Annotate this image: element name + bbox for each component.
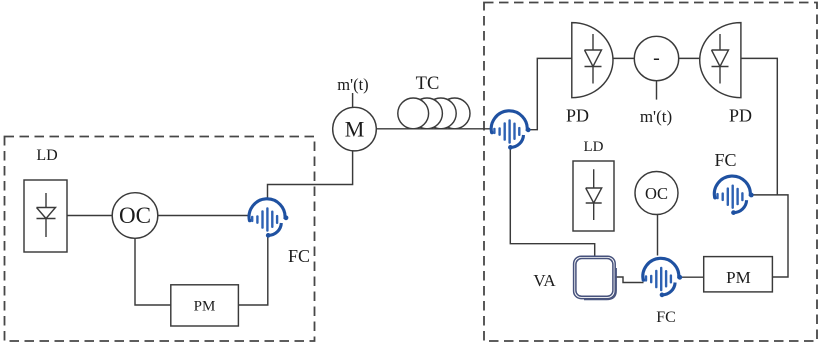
svg-text:FC: FC [288, 246, 310, 266]
svg-text:LD: LD [36, 147, 57, 164]
svg-text:PM: PM [726, 268, 751, 287]
svg-text:-: - [653, 47, 660, 69]
svg-text:OC: OC [119, 203, 151, 228]
svg-text:FC: FC [656, 309, 676, 326]
svg-text:PM: PM [194, 299, 216, 315]
svg-text:TC: TC [416, 74, 440, 94]
svg-text:VA: VA [533, 271, 556, 290]
svg-text:OC: OC [645, 184, 668, 203]
svg-text:PD: PD [729, 106, 752, 126]
svg-text:M: M [345, 117, 365, 142]
svg-text:m'(t): m'(t) [337, 75, 368, 94]
svg-text:m'(t): m'(t) [640, 107, 672, 126]
svg-text:PD: PD [566, 106, 589, 126]
svg-text:FC: FC [714, 150, 736, 170]
svg-text:LD: LD [584, 139, 604, 155]
